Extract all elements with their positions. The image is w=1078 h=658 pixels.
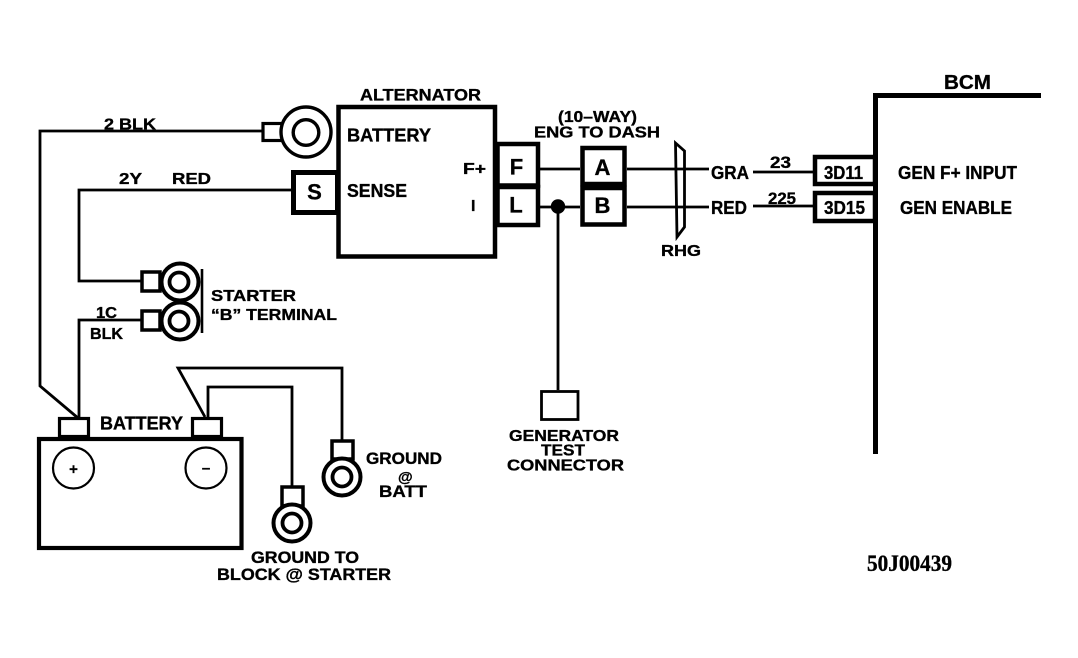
- svg-text:GEN F+ INPUT: GEN F+ INPUT: [898, 163, 1017, 183]
- svg-text:A: A: [595, 155, 611, 180]
- BCM module outline: [873, 93, 1041, 454]
- battery box: [39, 439, 242, 548]
- svg-text:I: I: [471, 198, 475, 215]
- svg-text:SENSE: SENSE: [347, 181, 407, 201]
- svg-text:BATT: BATT: [379, 482, 428, 501]
- wire A to GRA: [627, 168, 709, 171]
- terminal 3D15 box: [815, 193, 875, 221]
- wire L to B: [540, 206, 580, 209]
- svg-text:“B” TERMINAL: “B” TERMINAL: [211, 307, 337, 324]
- svg-text:GRA: GRA: [711, 163, 749, 183]
- svg-text:23: 23: [770, 153, 791, 172]
- svg-text:RHG: RHG: [661, 243, 701, 260]
- svg-text:ENG TO DASH: ENG TO DASH: [534, 125, 660, 142]
- ring terminal ground to block at starter: [274, 487, 311, 542]
- svg-text:2 BLK: 2 BLK: [104, 117, 156, 134]
- svg-text:BATTERY: BATTERY: [347, 126, 431, 146]
- wire circuit 23 to 3D11: [753, 171, 813, 174]
- wire F to A: [540, 168, 580, 171]
- svg-text:BLK: BLK: [90, 326, 123, 343]
- in-line connector RHG: [676, 143, 685, 237]
- svg-text:L: L: [509, 193, 522, 218]
- svg-text:RED: RED: [711, 198, 747, 218]
- svg-text:RED: RED: [172, 171, 211, 188]
- svg-text:STARTER: STARTER: [211, 288, 297, 305]
- label GROUND TO BLOCK @ STARTER: [217, 548, 391, 584]
- label GROUND @ BATT: [366, 449, 442, 501]
- generator test connector box: [542, 392, 579, 420]
- wire B to RED: [627, 206, 709, 209]
- terminal S box: [294, 173, 338, 213]
- terminal L box: [498, 187, 539, 225]
- wire 2 BLK from battery positive to alternator battery ring terminal: [40, 131, 263, 418]
- starter stud bar: [201, 269, 204, 333]
- svg-text:ALTERNATOR: ALTERNATOR: [360, 86, 481, 105]
- svg-text:225: 225: [768, 189, 796, 208]
- svg-text:50J00439: 50J00439: [867, 551, 952, 576]
- battery negative terminal: [193, 419, 222, 437]
- terminal 3D11 box: [815, 157, 875, 184]
- ring terminal ground at batt: [324, 441, 361, 496]
- battery positive post circle: [53, 448, 94, 489]
- ground wire to block at starter: [208, 387, 292, 487]
- wire circuit 225 to 3D15: [753, 205, 813, 208]
- label GENERATOR TEST CONNECTOR: [507, 428, 624, 475]
- svg-text:–: –: [202, 460, 210, 477]
- svg-text:F+: F+: [463, 161, 486, 178]
- battery negative post circle: [186, 448, 227, 489]
- connector pin A box: [583, 148, 625, 184]
- svg-text:+: +: [69, 461, 78, 478]
- svg-text:3D15: 3D15: [824, 198, 865, 218]
- terminal F box: [498, 144, 539, 186]
- wire 2Y RED from battery to alternator S terminal: [79, 190, 291, 281]
- wire 1C BLK from starter to battery positive: [79, 320, 142, 418]
- ring terminal at alternator BATTERY output: [263, 107, 331, 157]
- junction dot on L wire: [551, 199, 565, 213]
- svg-text:S: S: [307, 180, 322, 205]
- svg-text:BCM: BCM: [944, 72, 991, 94]
- battery positive terminal: [60, 419, 89, 437]
- svg-text:(10–WAY): (10–WAY): [558, 109, 637, 126]
- svg-text:F: F: [510, 155, 523, 180]
- wire junction to generator test connector: [557, 207, 560, 390]
- svg-text:2Y: 2Y: [119, 171, 142, 188]
- svg-text:3D11: 3D11: [824, 163, 863, 183]
- svg-text:GEN ENABLE: GEN ENABLE: [900, 198, 1012, 218]
- svg-text:BATTERY: BATTERY: [100, 414, 183, 434]
- ground wire to ground at batt: [178, 368, 342, 441]
- alternator box: [339, 107, 496, 257]
- connector pin B box: [583, 188, 625, 225]
- svg-text:GROUND: GROUND: [366, 449, 442, 468]
- starter ring terminal 2: [142, 303, 199, 340]
- svg-text:BLOCK @ STARTER: BLOCK @ STARTER: [217, 565, 391, 584]
- svg-text:CONNECTOR: CONNECTOR: [507, 458, 624, 475]
- svg-text:B: B: [595, 193, 611, 218]
- starter ring terminal 1: [142, 264, 199, 301]
